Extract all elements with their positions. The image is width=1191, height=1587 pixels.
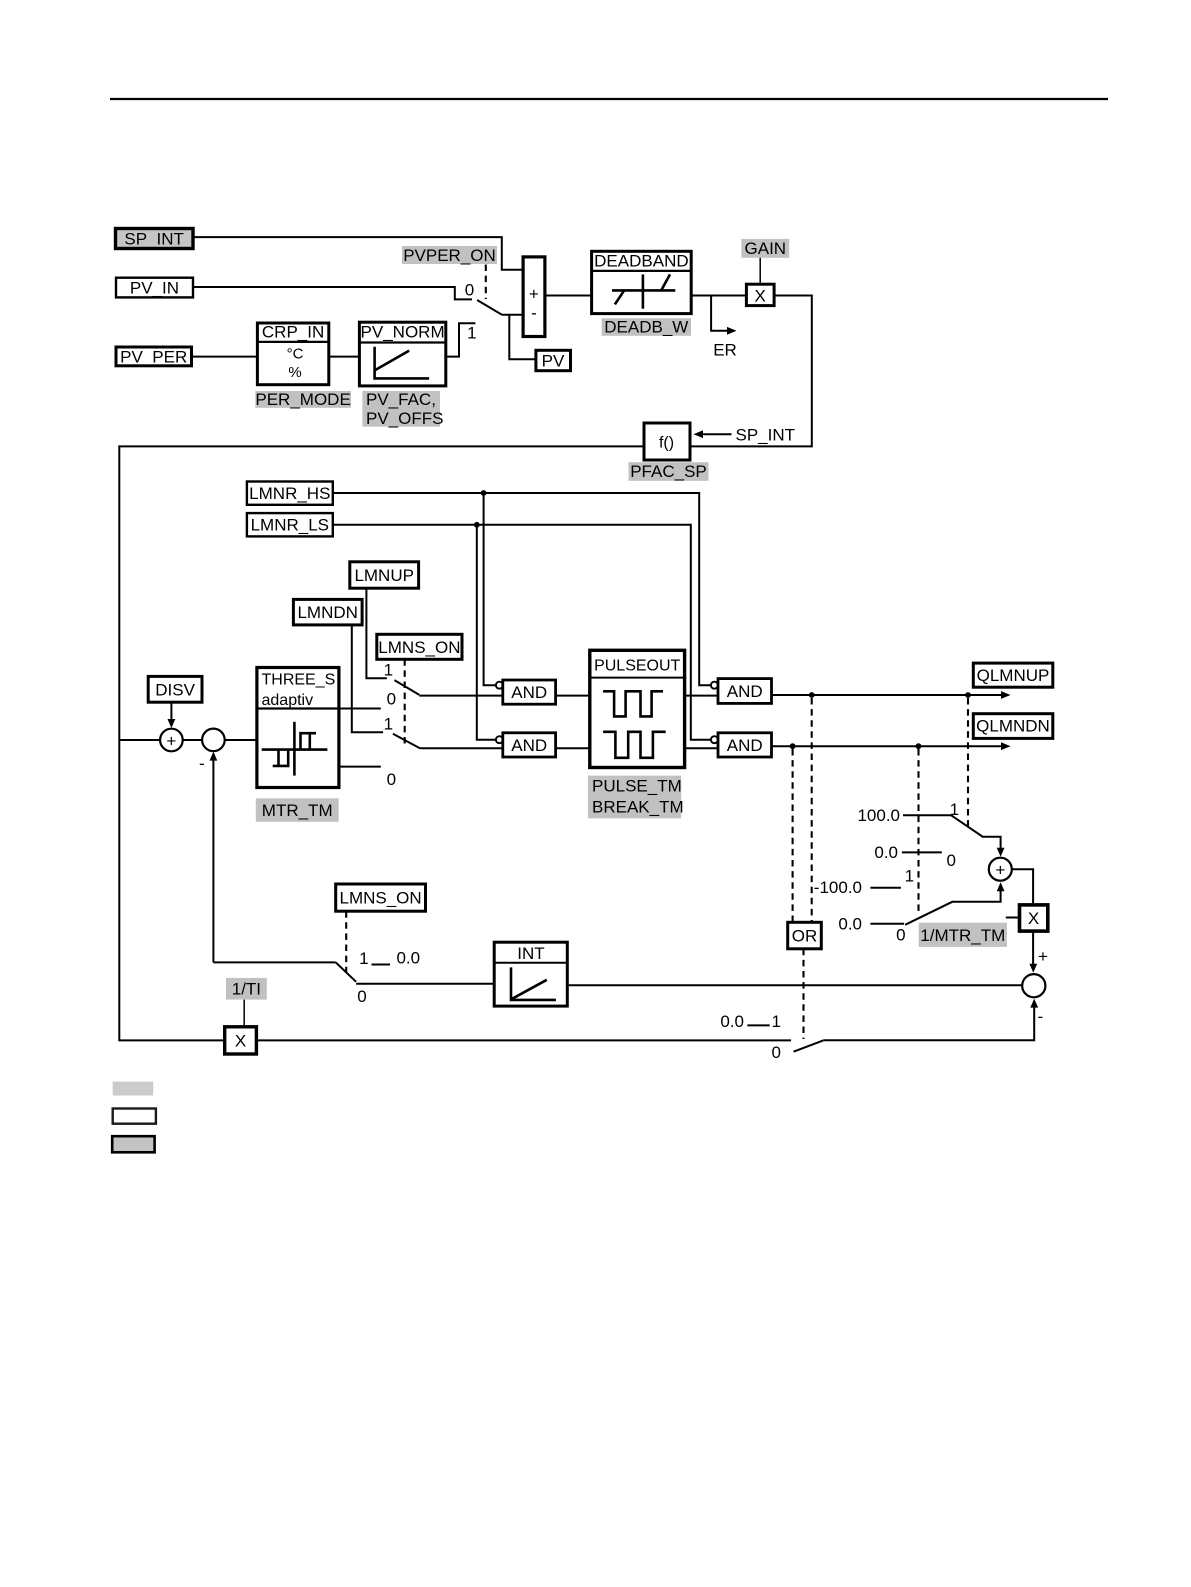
svg-text:PV_PER: PV_PER: [120, 348, 187, 367]
gate AND down-right: [711, 733, 772, 757]
arrow bottom line into lower summer minus: [823, 999, 1043, 1041]
multiplier X (gain): [746, 284, 774, 305]
svg-text:+: +: [166, 732, 176, 751]
svg-text:1: 1: [384, 715, 393, 734]
subtract circle: [199, 729, 225, 773]
block THREE_S adaptiv: [257, 668, 339, 788]
wire 0.0 lower throw: [870, 923, 904, 925]
svg-text:LMNUP: LMNUP: [354, 566, 414, 585]
arrow X to lower summer plus: [1029, 931, 1048, 973]
svg-text:MTR_TM: MTR_TM: [262, 801, 333, 820]
wire 100.0 throw: [903, 814, 951, 816]
wire lower switch common to AND: [420, 747, 503, 749]
svg-text:0: 0: [387, 690, 396, 709]
summing circle +: [160, 729, 183, 752]
node on LMNR_LS wire: [474, 522, 480, 528]
wire QLMNDN output arrow: [772, 742, 1011, 750]
gate AND up-left: [496, 680, 556, 704]
input box LMNR_HS: [247, 482, 333, 505]
wire PV_IN to switch throw 0: [193, 287, 472, 299]
input box SP_INT: [116, 229, 194, 249]
block INT: [494, 942, 567, 1006]
wire upper switch common to AND: [419, 695, 503, 697]
svg-text:AND: AND: [727, 736, 763, 755]
wire THREE_S upper output (throw 0): [339, 708, 381, 710]
svg-text:0: 0: [387, 770, 396, 789]
label GAIN: [741, 239, 789, 258]
dashed QLMNUP to OR: [811, 698, 813, 922]
label PVPER_ON: [402, 246, 497, 265]
svg-text:LMNR_LS: LMNR_LS: [251, 516, 329, 535]
blade upper manual switch: [394, 680, 419, 695]
wire LMNR_HS branch to left AND: [484, 493, 496, 685]
label 1/TI: [226, 978, 267, 1000]
svg-text:-: -: [531, 304, 537, 323]
svg-text:PULSEOUT: PULSEOUT: [594, 658, 680, 675]
switch blade PVPER_ON: [477, 300, 501, 315]
gate OR: [788, 922, 822, 949]
svg-text:+: +: [529, 285, 539, 304]
summer block +/-: [523, 257, 545, 337]
blade 100.0 switch: [951, 815, 1000, 850]
svg-text:QLMNDN: QLMNDN: [976, 717, 1050, 736]
svg-text:1: 1: [384, 661, 393, 680]
svg-text:LMNR_HS: LMNR_HS: [249, 484, 330, 503]
wire LMNUP to switch throw 1: [366, 588, 387, 678]
svg-text:%: %: [288, 364, 301, 381]
input box LMNDN: [293, 599, 362, 625]
svg-text:100.0: 100.0: [857, 806, 900, 825]
svg-text:OR: OR: [792, 927, 818, 946]
node QLMNUP wire at OR: [809, 692, 815, 698]
label PFAC_SP: [629, 462, 709, 481]
label DEADB_W: [602, 318, 691, 337]
wire LMNR_HS to right AND: [333, 493, 711, 685]
wire 0.0 throw: [902, 851, 942, 853]
svg-text:SP_INT: SP_INT: [124, 230, 184, 249]
svg-text:0.0: 0.0: [874, 843, 898, 862]
header rule: [110, 98, 1108, 100]
svg-text:PV_NORM: PV_NORM: [361, 323, 445, 342]
wire -100.0 throw: [870, 887, 901, 889]
output box QLMNUP: [973, 663, 1053, 687]
dashed control LMNS_ON switches: [404, 659, 406, 744]
dashed QLMNDN to OR: [792, 749, 794, 922]
svg-text:0.0: 0.0: [720, 1012, 744, 1031]
wire INT to lower summer: [567, 984, 1022, 986]
wire X along bottom to reset switch: [256, 1039, 791, 1041]
ER branch arrow: [711, 296, 737, 360]
output box QLMNDN: [973, 714, 1053, 739]
svg-text:X: X: [235, 1032, 246, 1051]
wire switch to INT: [356, 983, 494, 985]
input box PV_IN: [116, 278, 193, 298]
node QLMNUP wire at value switch: [965, 692, 971, 698]
svg-text:+: +: [1038, 947, 1048, 966]
svg-text:adaptiv: adaptiv: [262, 692, 314, 709]
svg-text:1/TI: 1/TI: [232, 980, 261, 999]
multiplier X (1/TI): [225, 1027, 257, 1054]
svg-text:THREE_S: THREE_S: [262, 672, 336, 689]
node on LMNR_HS wire: [481, 490, 487, 496]
stub 0.0 throw (integrator switch): [372, 964, 391, 966]
wire summer to DEADBAND: [545, 295, 592, 297]
wire AND to PULSEOUT lower: [556, 747, 590, 749]
svg-text:1: 1: [359, 949, 368, 968]
wire PULSEOUT to AND up-right: [685, 695, 718, 697]
wire 1/TI to X: [243, 1000, 245, 1027]
svg-text:LMNDN: LMNDN: [297, 603, 357, 622]
blade integrator input switch: [336, 962, 356, 981]
wire between circles: [183, 739, 202, 741]
arrow position feedback into subtract circle: [210, 752, 218, 963]
gate AND down-left: [496, 733, 556, 757]
wire LMNR_LS branch to left AND: [477, 525, 496, 740]
svg-text:AND: AND: [511, 736, 547, 755]
svg-text:0.0: 0.0: [838, 915, 862, 934]
adder circle: [989, 858, 1012, 881]
block PULSEOUT: [590, 650, 685, 767]
gate AND up-right: [711, 679, 772, 704]
svg-text:PFAC_SP: PFAC_SP: [630, 462, 707, 481]
legend gray swatch: [113, 1082, 154, 1096]
wire switch common to summer minus input: [502, 314, 524, 316]
input box LMNUP: [350, 562, 419, 588]
multiplier X (1/MTR_TM): [1020, 905, 1048, 931]
svg-text:LMNS_ON: LMNS_ON: [340, 889, 422, 908]
arrow into adder top: [997, 848, 1005, 857]
wire CRP_IN to PV_NORM: [329, 356, 360, 358]
dashed QLMNUP to 100.0 switch: [967, 698, 969, 826]
arrow into adder bottom: [997, 882, 1005, 891]
label PV_FAC, PV_OFFS: [362, 390, 443, 428]
arrow DISV into summing circle: [168, 702, 176, 728]
wire PV_NORM to switch throw 1: [446, 323, 476, 356]
svg-text:AND: AND: [727, 682, 763, 701]
svg-text:PV_IN: PV_IN: [130, 279, 179, 298]
block PV_NORM: [359, 322, 445, 386]
input box LMNS_ON: [377, 634, 462, 659]
svg-text:QLMNUP: QLMNUP: [977, 666, 1050, 685]
svg-text:1/MTR_TM: 1/MTR_TM: [920, 926, 1005, 945]
svg-text:DEADB_W: DEADB_W: [604, 318, 688, 337]
blade lower manual switch: [393, 734, 420, 749]
dashed control PVPER_ON switch: [485, 265, 487, 300]
svg-text:PV_OFFS: PV_OFFS: [366, 409, 443, 428]
input box LMNR_LS: [247, 513, 333, 536]
wire QLMNUP output arrow: [772, 691, 1011, 699]
wire LMNDN to switch throw 1: [352, 625, 383, 732]
wire f() output feedback to 1/TI multiplier: [119, 446, 644, 1040]
dashed OR to integrator reset switch: [802, 949, 804, 1039]
svg-text:°C: °C: [287, 346, 304, 363]
svg-text:X: X: [1028, 909, 1039, 928]
legend bordered gray swatch: [112, 1136, 154, 1152]
svg-text:f(): f(): [659, 435, 674, 452]
svg-text:0: 0: [771, 1043, 780, 1062]
svg-text:DISV: DISV: [155, 681, 195, 700]
svg-text:SP_INT: SP_INT: [736, 426, 796, 445]
svg-text:-100.0: -100.0: [814, 878, 862, 897]
svg-text:INT: INT: [517, 944, 544, 963]
wire branch to PV output box: [509, 315, 536, 360]
svg-text:X: X: [755, 287, 766, 306]
svg-text:PVPER_ON: PVPER_ON: [403, 246, 496, 265]
wire GAIN to X: [759, 258, 761, 284]
svg-text:PULSE_TM: PULSE_TM: [592, 777, 682, 796]
svg-text:+: +: [995, 861, 1005, 880]
wire PULSEOUT to AND down-right: [685, 747, 718, 749]
svg-text:-: -: [1038, 1007, 1044, 1026]
stub 1/MTR_TM into X: [1006, 917, 1020, 919]
dashed QLMNDN to -100.0 switch: [917, 749, 919, 911]
svg-text:PV: PV: [542, 352, 565, 371]
wire AND to PULSEOUT upper: [556, 695, 590, 697]
svg-text:CRP_IN: CRP_IN: [262, 323, 324, 342]
blade reset switch: [794, 1040, 824, 1051]
label MTR_TM: [256, 798, 339, 822]
svg-text:LMNS_ON: LMNS_ON: [378, 638, 460, 657]
wire X down to f(): [690, 296, 812, 447]
svg-text:0.0: 0.0: [396, 949, 420, 968]
input box PV_PER: [116, 347, 192, 367]
arrow SP_INT into f(): [694, 426, 796, 445]
blade -100.0 switch: [905, 889, 1001, 925]
svg-text:-: -: [199, 754, 205, 773]
block DEADBAND: [592, 251, 692, 313]
legend white swatch: [113, 1109, 156, 1124]
block f(): [644, 423, 690, 460]
wire THREE_S lower output (throw 0): [339, 766, 381, 768]
dashed LMNS_ON to integrator switch: [345, 911, 347, 972]
wire PV_PER to CRP_IN: [192, 356, 258, 358]
block CRP_IN: [257, 323, 328, 385]
svg-text:ER: ER: [713, 341, 737, 360]
output box PV: [536, 350, 571, 370]
svg-text:DEADBAND: DEADBAND: [594, 252, 688, 271]
label PULSE_TM BREAK_TM: [588, 776, 684, 819]
svg-text:1: 1: [771, 1012, 780, 1031]
svg-text:0: 0: [896, 926, 905, 945]
label 1/MTR_TM: [919, 923, 1007, 947]
wire subtract circle to THREE_S: [225, 739, 257, 741]
svg-text:GAIN: GAIN: [745, 239, 787, 258]
lower summer circle: [1022, 974, 1045, 997]
svg-text:0: 0: [357, 987, 366, 1006]
input box LMNS_ON (integrator): [336, 884, 426, 911]
node QLMNDN wire at value switch: [916, 743, 922, 749]
wire feedback into summing circle: [119, 739, 160, 741]
svg-text:PV_FAC,: PV_FAC,: [366, 390, 436, 409]
svg-text:PER_MODE: PER_MODE: [255, 390, 350, 409]
label PER_MODE: [255, 390, 351, 409]
node QLMNDN wire at OR: [790, 743, 796, 749]
wire subtract feed along bottom: [213, 961, 335, 963]
wire LMNR_LS to right AND: [333, 525, 711, 740]
svg-text:0: 0: [465, 281, 474, 300]
svg-text:0: 0: [946, 851, 955, 870]
svg-text:AND: AND: [511, 683, 547, 702]
wire adder to multiplier X: [1012, 869, 1033, 905]
svg-text:BREAK_TM: BREAK_TM: [592, 798, 684, 817]
svg-text:1: 1: [905, 867, 914, 886]
svg-text:1: 1: [467, 324, 476, 343]
wire SP_INT to summer: [193, 237, 523, 270]
input box DISV: [148, 676, 202, 702]
stub 0.0 throw (reset switch): [747, 1024, 769, 1026]
wire DEADBAND to multiplier X: [691, 295, 746, 297]
